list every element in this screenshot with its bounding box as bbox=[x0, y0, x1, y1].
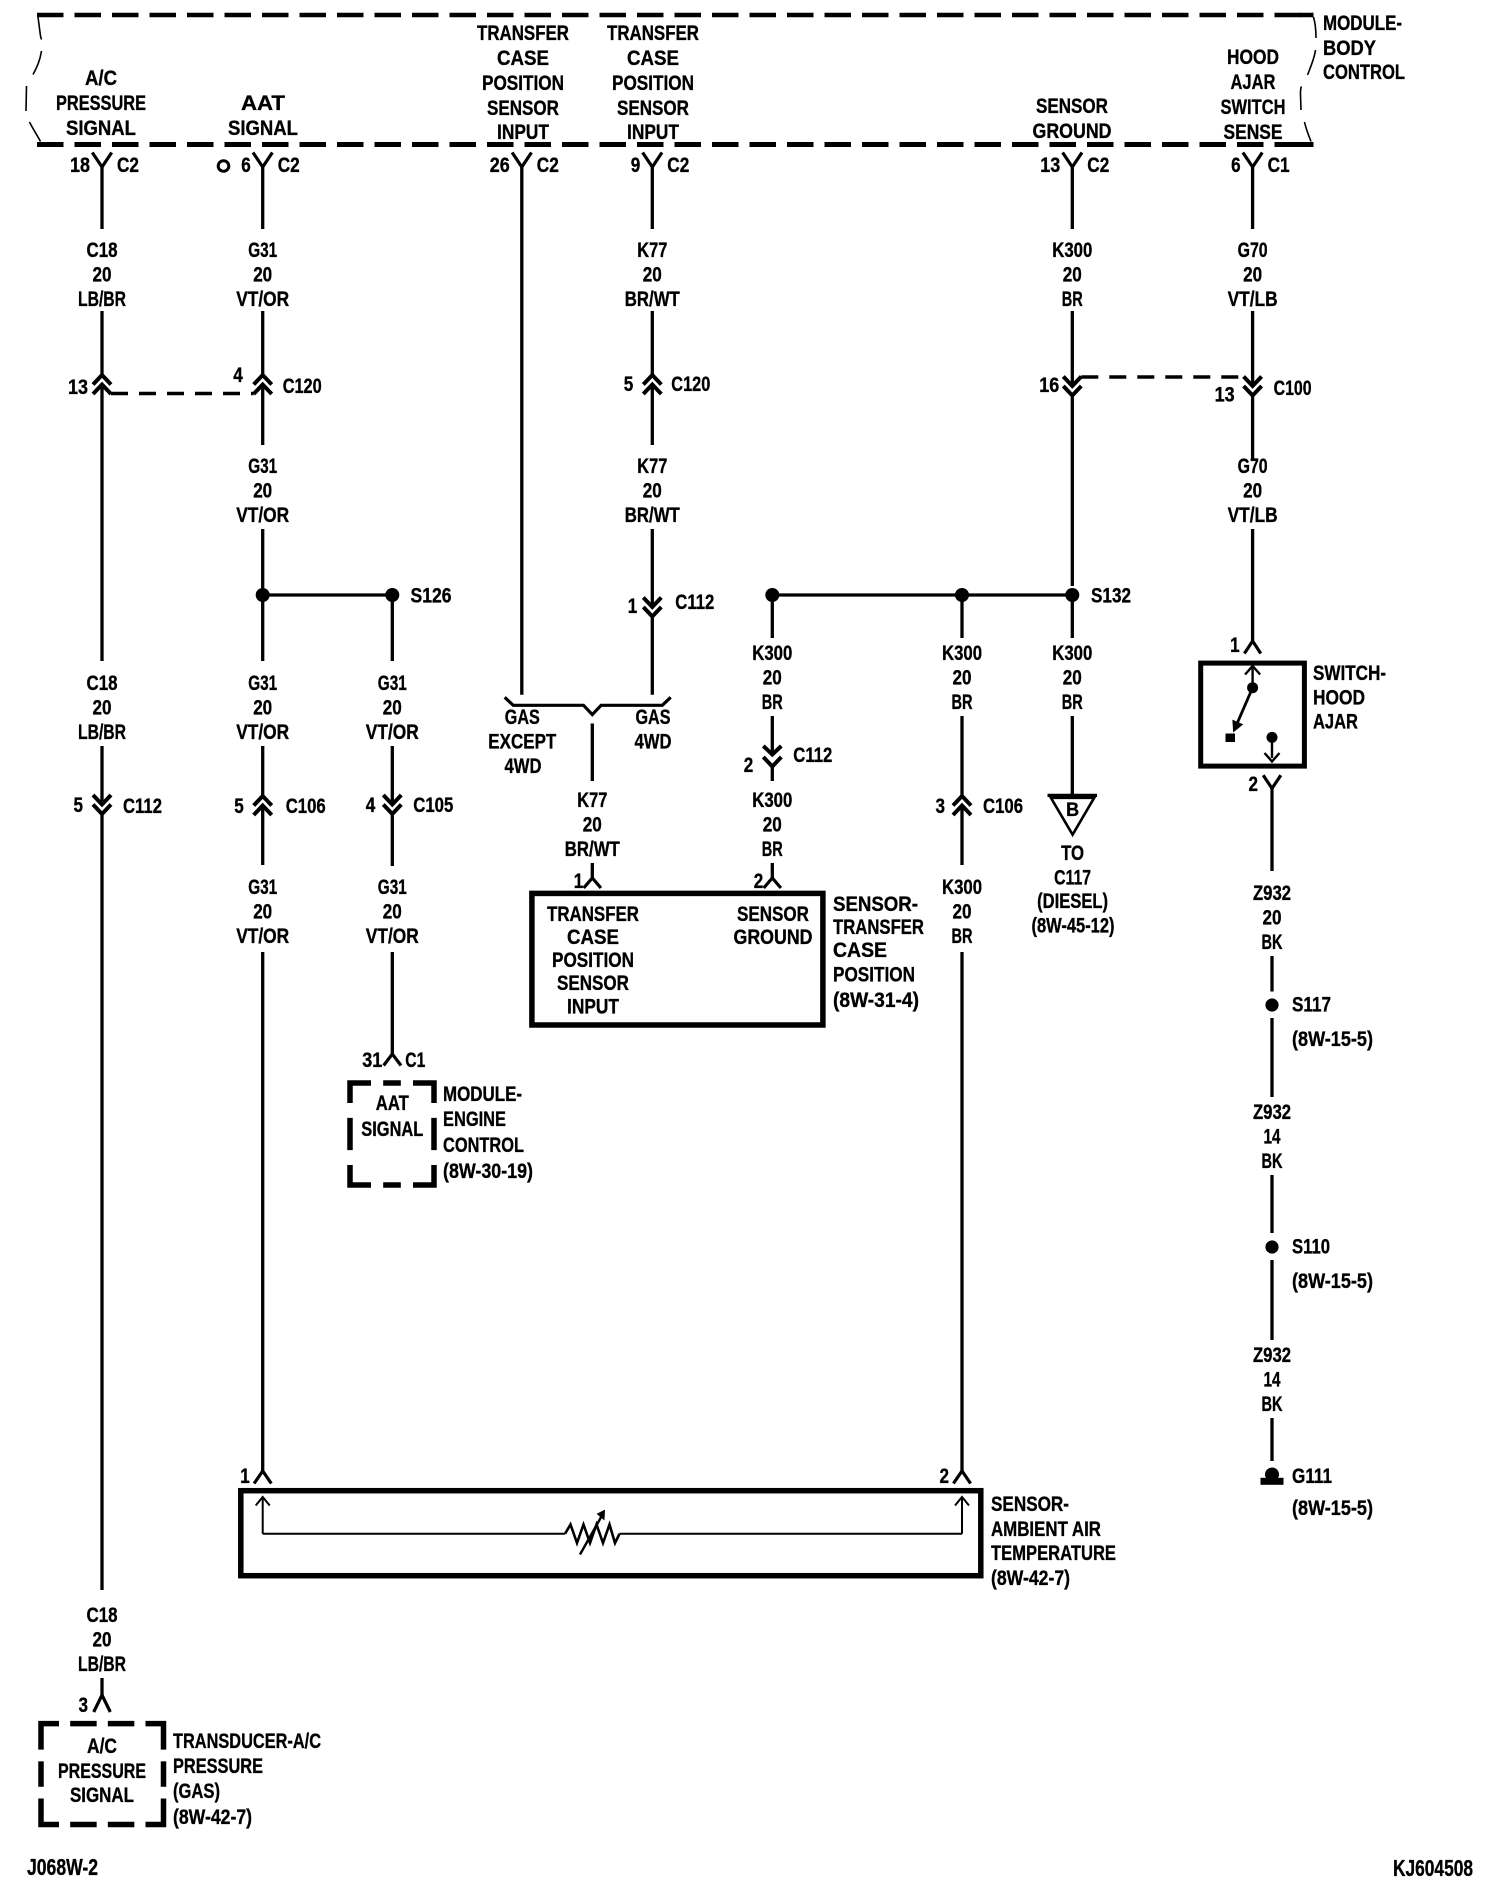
svg-text:VT/LB: VT/LB bbox=[1228, 503, 1278, 527]
splice S110 dot bbox=[1265, 1240, 1278, 1253]
wire G70 from pin 6 C1 bbox=[1251, 167, 1254, 229]
svg-text:20: 20 bbox=[953, 900, 972, 924]
svg-text:C2: C2 bbox=[1087, 153, 1109, 177]
splice S132 jumper wire bbox=[772, 593, 1072, 596]
svg-text:26: 26 bbox=[490, 153, 510, 177]
svg-text:PRESSURE: PRESSURE bbox=[56, 91, 146, 115]
svg-text:SENSOR: SENSOR bbox=[737, 902, 809, 926]
module-body-control right wavy edge bbox=[1300, 17, 1316, 142]
svg-text:A/C: A/C bbox=[87, 1734, 117, 1758]
pin 31 C1 into engine control module bbox=[384, 1054, 401, 1066]
svg-text:AJAR: AJAR bbox=[1231, 70, 1276, 94]
svg-text:(8W-30-19): (8W-30-19) bbox=[443, 1159, 533, 1183]
splice S117 dot bbox=[1265, 998, 1278, 1011]
svg-text:C1: C1 bbox=[405, 1048, 425, 1072]
svg-text:C106: C106 bbox=[983, 794, 1023, 818]
svg-text:20: 20 bbox=[253, 479, 272, 503]
svg-text:G31: G31 bbox=[248, 671, 277, 695]
module-body-control top dashed edge bbox=[37, 13, 1313, 18]
svg-text:BR: BR bbox=[762, 837, 783, 861]
pin 13 C2 (sensor ground) bbox=[1063, 153, 1082, 168]
AAT sensor internal lead pin2 with arrow bbox=[961, 1498, 963, 1534]
svg-text:SIGNAL: SIGNAL bbox=[66, 116, 136, 140]
merged wire bbox=[591, 724, 594, 782]
svg-text:B: B bbox=[1066, 800, 1079, 821]
svg-text:(8W-42-7): (8W-42-7) bbox=[173, 1805, 252, 1829]
wire below splice bbox=[1071, 595, 1074, 638]
svg-text:20: 20 bbox=[383, 696, 402, 720]
svg-text:20: 20 bbox=[93, 263, 112, 287]
svg-text:5: 5 bbox=[234, 794, 244, 818]
wire (long run to AAT sensor) bbox=[960, 952, 963, 1471]
svg-text:13: 13 bbox=[1215, 383, 1235, 407]
GAS / GAS EXCEPT 4WD merge brace bbox=[505, 697, 671, 714]
svg-text:4: 4 bbox=[366, 793, 376, 817]
svg-text:C2: C2 bbox=[117, 153, 139, 177]
wire bbox=[651, 617, 654, 695]
wire bbox=[261, 746, 264, 796]
svg-text:20: 20 bbox=[93, 1628, 112, 1652]
svg-text:C112: C112 bbox=[793, 743, 832, 767]
switch movable blade with arrowhead bbox=[1238, 688, 1253, 723]
svg-text:VT/LB: VT/LB bbox=[1228, 287, 1278, 311]
switch blade tip contact square bbox=[1226, 734, 1236, 743]
svg-text:LB/BR: LB/BR bbox=[78, 720, 126, 744]
ground G111 symbol bbox=[1265, 1468, 1279, 1482]
svg-text:20: 20 bbox=[1063, 666, 1082, 690]
svg-text:C2: C2 bbox=[667, 153, 689, 177]
wire K300 below S132 middle dot bbox=[960, 595, 963, 638]
svg-text:BR: BR bbox=[1062, 287, 1083, 311]
svg-text:20: 20 bbox=[93, 696, 112, 720]
AAT sensor internal lead pin1 with arrow bbox=[262, 1498, 264, 1534]
svg-text:13: 13 bbox=[68, 375, 88, 399]
connector C120 pin 4 bbox=[254, 375, 272, 385]
wire bbox=[1270, 1260, 1273, 1340]
svg-text:5: 5 bbox=[624, 372, 634, 396]
splice S132 dot left bbox=[765, 588, 779, 602]
svg-text:2: 2 bbox=[744, 753, 754, 777]
svg-text:LB/BR: LB/BR bbox=[78, 287, 126, 311]
wire G31 from pin 6 bbox=[261, 167, 264, 229]
svg-text:(8W-15-5): (8W-15-5) bbox=[1292, 1269, 1373, 1293]
wire bbox=[1270, 956, 1273, 992]
wire G31 below S126 bbox=[391, 595, 394, 661]
svg-text:(8W-42-7): (8W-42-7) bbox=[991, 1566, 1070, 1590]
svg-text:VT/OR: VT/OR bbox=[236, 720, 289, 744]
wire K300 from pin 13 bbox=[1071, 167, 1074, 229]
svg-text:POSITION: POSITION bbox=[833, 963, 915, 987]
svg-text:SIGNAL: SIGNAL bbox=[70, 1783, 134, 1807]
svg-text:S126: S126 bbox=[411, 584, 452, 608]
thermistor variable arrow bbox=[580, 1516, 602, 1555]
connector C112 pin 5 bbox=[93, 795, 111, 805]
svg-text:C18: C18 bbox=[87, 1603, 118, 1627]
module-body-control left wavy edge bbox=[26, 17, 42, 142]
dashed rung to C120 bbox=[111, 392, 254, 395]
svg-text:CASE: CASE bbox=[833, 938, 887, 962]
svg-text:C105: C105 bbox=[413, 793, 453, 817]
svg-text:CONTROL: CONTROL bbox=[1323, 60, 1405, 84]
svg-text:SWITCH: SWITCH bbox=[1221, 95, 1286, 119]
svg-text:C18: C18 bbox=[87, 238, 118, 262]
switch common contact dot bbox=[1247, 682, 1258, 693]
svg-text:K300: K300 bbox=[752, 641, 792, 665]
connector C105 pin 4 bbox=[383, 795, 401, 805]
svg-text:CASE: CASE bbox=[627, 46, 679, 70]
wire bbox=[960, 806, 963, 866]
switch fixed contact lead with arrowhead to box edge bbox=[1271, 737, 1273, 758]
connector C112 pin 1 bbox=[643, 598, 661, 608]
svg-text:GROUND: GROUND bbox=[1033, 119, 1112, 143]
splice S132 dot right bbox=[1065, 588, 1079, 602]
svg-text:GAS: GAS bbox=[636, 705, 671, 729]
svg-text:20: 20 bbox=[1063, 263, 1082, 287]
svg-text:LB/BR: LB/BR bbox=[78, 1652, 126, 1676]
svg-text:G70: G70 bbox=[1238, 238, 1268, 262]
pin 2 into TC position sensor bbox=[764, 878, 781, 888]
wire bbox=[100, 385, 103, 662]
connector C100 pin 13 bbox=[1244, 377, 1262, 387]
svg-text:3: 3 bbox=[79, 1693, 89, 1717]
svg-text:K300: K300 bbox=[942, 875, 982, 899]
svg-text:G111: G111 bbox=[1292, 1464, 1332, 1488]
pin 1 into TC position sensor bbox=[584, 878, 601, 888]
svg-text:EXCEPT: EXCEPT bbox=[488, 730, 556, 754]
wire bbox=[391, 746, 394, 805]
svg-text:S117: S117 bbox=[1292, 993, 1331, 1017]
wire bbox=[1270, 1175, 1273, 1233]
svg-text:TRANSFER: TRANSFER bbox=[833, 915, 924, 939]
wire bbox=[261, 806, 264, 866]
connector C120 pin 5 bbox=[643, 375, 661, 385]
svg-text:GAS: GAS bbox=[505, 705, 540, 729]
svg-text:(DIESEL): (DIESEL) bbox=[1037, 889, 1108, 913]
svg-text:POSITION: POSITION bbox=[552, 948, 634, 972]
svg-text:6: 6 bbox=[1231, 153, 1241, 177]
wire bbox=[771, 716, 774, 755]
splice S126 dot right bbox=[385, 588, 399, 602]
svg-text:C2: C2 bbox=[278, 153, 300, 177]
svg-text:K77: K77 bbox=[577, 788, 607, 812]
svg-text:INPUT: INPUT bbox=[567, 995, 619, 1019]
pin 6 C2 (AAT signal) with circle marker bbox=[218, 161, 229, 172]
wire through splice bbox=[261, 529, 264, 661]
svg-text:G31: G31 bbox=[248, 238, 277, 262]
svg-text:16: 16 bbox=[1039, 373, 1059, 397]
wire bbox=[1270, 1018, 1273, 1097]
svg-text:20: 20 bbox=[643, 263, 662, 287]
svg-text:20: 20 bbox=[383, 900, 402, 924]
connector C112? col1 chevrons pin 13 (C120 row) bbox=[93, 375, 111, 385]
svg-text:K300: K300 bbox=[1052, 641, 1092, 665]
wire bbox=[1071, 396, 1074, 587]
module-body-control bottom edge final dash bbox=[1300, 142, 1314, 147]
wire bbox=[1270, 1418, 1273, 1461]
svg-text:Z932: Z932 bbox=[1253, 1343, 1291, 1367]
svg-text:20: 20 bbox=[583, 813, 602, 837]
module-body-control bottom dashed edge bbox=[37, 142, 1313, 147]
svg-text:INPUT: INPUT bbox=[627, 120, 679, 144]
svg-text:BODY: BODY bbox=[1323, 36, 1376, 60]
pin 1 into AAT sensor bbox=[254, 1471, 271, 1484]
svg-text:C18: C18 bbox=[87, 671, 118, 695]
svg-text:(8W-15-5): (8W-15-5) bbox=[1292, 1496, 1373, 1520]
connector C106 pin 5 bbox=[254, 796, 272, 806]
svg-text:VT/OR: VT/OR bbox=[236, 287, 289, 311]
svg-text:BR: BR bbox=[762, 690, 783, 714]
svg-text:K300: K300 bbox=[942, 641, 982, 665]
svg-text:C117: C117 bbox=[1054, 866, 1091, 890]
wire bbox=[261, 311, 264, 375]
svg-text:K300: K300 bbox=[1052, 238, 1092, 262]
svg-text:BK: BK bbox=[1262, 930, 1283, 954]
svg-text:G31: G31 bbox=[378, 875, 407, 899]
wire bbox=[771, 863, 774, 878]
svg-text:1: 1 bbox=[628, 594, 638, 618]
switch common contact arrow (pin 1 side) bbox=[1251, 668, 1253, 688]
svg-text:4: 4 bbox=[233, 363, 243, 387]
svg-text:2: 2 bbox=[1249, 772, 1259, 796]
wire to diesel reference triangle bbox=[1071, 716, 1074, 795]
wire bbox=[651, 529, 654, 607]
svg-text:(8W-31-4): (8W-31-4) bbox=[833, 988, 919, 1012]
svg-text:S132: S132 bbox=[1091, 584, 1131, 608]
wire bbox=[591, 863, 594, 878]
svg-text:VT/OR: VT/OR bbox=[366, 924, 419, 948]
svg-text:TRANSFER: TRANSFER bbox=[547, 902, 639, 926]
svg-text:SENSOR: SENSOR bbox=[557, 971, 629, 995]
svg-text:AAT: AAT bbox=[241, 91, 285, 115]
svg-text:BR/WT: BR/WT bbox=[565, 837, 620, 861]
svg-text:CONTROL: CONTROL bbox=[443, 1133, 524, 1157]
pin 1 into switch bbox=[1244, 641, 1260, 654]
svg-text:SIGNAL: SIGNAL bbox=[361, 1117, 423, 1141]
svg-text:J068W-2: J068W-2 bbox=[27, 1854, 98, 1880]
svg-text:18: 18 bbox=[70, 153, 90, 177]
svg-text:ENGINE: ENGINE bbox=[443, 1107, 506, 1131]
svg-text:SENSOR: SENSOR bbox=[617, 96, 689, 120]
sensor-ambient air temperature box bbox=[241, 1491, 981, 1576]
svg-text:AMBIENT AIR: AMBIENT AIR bbox=[991, 1517, 1101, 1541]
svg-text:3: 3 bbox=[936, 794, 946, 818]
svg-text:C100: C100 bbox=[1274, 376, 1312, 400]
wire bbox=[1251, 396, 1254, 461]
svg-text:TRANSFER: TRANSFER bbox=[477, 21, 569, 45]
connector C106 pin 3 bbox=[953, 796, 971, 806]
svg-text:(8W-45-12): (8W-45-12) bbox=[1032, 914, 1115, 938]
svg-text:BK: BK bbox=[1262, 1149, 1283, 1173]
wire bbox=[960, 716, 963, 796]
svg-text:20: 20 bbox=[1243, 479, 1262, 503]
svg-text:4WD: 4WD bbox=[505, 754, 542, 778]
svg-text:G31: G31 bbox=[248, 875, 277, 899]
module-body-control top edge final dash bbox=[1300, 13, 1314, 18]
connector C112 pin 2 (male/female) bbox=[763, 746, 781, 755]
pin 3 into transducer bbox=[94, 1695, 111, 1712]
pin 9 C2 (transfer case position sensor input) bbox=[643, 153, 662, 168]
wire (long run to transducer) bbox=[100, 814, 103, 1590]
thermistor zigzag element bbox=[565, 1525, 620, 1544]
svg-text:POSITION: POSITION bbox=[612, 71, 694, 95]
svg-text:BR: BR bbox=[952, 924, 973, 948]
svg-text:BK: BK bbox=[1262, 1392, 1283, 1416]
svg-text:20: 20 bbox=[253, 900, 272, 924]
svg-text:BR/WT: BR/WT bbox=[625, 287, 680, 311]
svg-text:MODULE-: MODULE- bbox=[1323, 11, 1402, 35]
svg-text:C1: C1 bbox=[1268, 153, 1290, 177]
svg-text:INPUT: INPUT bbox=[497, 120, 549, 144]
svg-text:20: 20 bbox=[253, 263, 272, 287]
svg-text:C120: C120 bbox=[283, 374, 322, 398]
svg-text:SENSE: SENSE bbox=[1224, 120, 1283, 144]
svg-text:(8W-15-5): (8W-15-5) bbox=[1292, 1027, 1373, 1051]
svg-text:Z932: Z932 bbox=[1253, 1100, 1291, 1124]
svg-text:CASE: CASE bbox=[497, 46, 549, 70]
svg-text:K77: K77 bbox=[637, 238, 667, 262]
svg-text:BR: BR bbox=[952, 690, 973, 714]
wire bbox=[391, 814, 394, 866]
transducer-A/C pressure dashed box bbox=[41, 1724, 59, 1750]
wire bbox=[261, 385, 264, 446]
wire C18 from pin 18 bbox=[100, 167, 103, 229]
off-page reference triangle B (to C117 diesel) bbox=[1048, 794, 1098, 797]
svg-text:C112: C112 bbox=[675, 590, 714, 614]
svg-text:20: 20 bbox=[953, 666, 972, 690]
svg-text:20: 20 bbox=[1243, 263, 1262, 287]
pin 2 into AAT sensor bbox=[953, 1471, 970, 1484]
svg-text:K77: K77 bbox=[637, 454, 667, 478]
module-engine control dashed box bbox=[350, 1083, 371, 1103]
splice S132 dot middle bbox=[955, 588, 969, 602]
svg-text:4WD: 4WD bbox=[635, 730, 672, 754]
svg-text:(GAS): (GAS) bbox=[173, 1779, 220, 1803]
svg-text:20: 20 bbox=[253, 696, 272, 720]
AAT sensor internal wire bbox=[263, 1533, 565, 1535]
svg-text:9: 9 bbox=[631, 153, 641, 177]
svg-text:SENSOR-: SENSOR- bbox=[833, 892, 918, 916]
svg-text:TEMPERATURE: TEMPERATURE bbox=[991, 1541, 1116, 1565]
svg-text:5: 5 bbox=[74, 793, 84, 817]
connector C100 pin 16 bbox=[1063, 377, 1081, 387]
svg-text:SENSOR: SENSOR bbox=[487, 96, 559, 120]
wire bbox=[100, 746, 103, 805]
svg-text:13: 13 bbox=[1040, 153, 1060, 177]
pin 18 C2 (A/C pressure signal) bbox=[92, 153, 111, 168]
wire bbox=[391, 952, 394, 1054]
svg-text:HOOD: HOOD bbox=[1313, 686, 1365, 710]
svg-text:BR/WT: BR/WT bbox=[625, 503, 680, 527]
svg-text:MODULE-: MODULE- bbox=[443, 1082, 522, 1106]
svg-text:6: 6 bbox=[241, 153, 251, 177]
svg-text:1: 1 bbox=[574, 869, 584, 893]
svg-text:KJ604508: KJ604508 bbox=[1393, 1855, 1473, 1881]
svg-text:AJAR: AJAR bbox=[1313, 710, 1358, 734]
svg-text:C120: C120 bbox=[671, 372, 710, 396]
svg-text:G70: G70 bbox=[1238, 454, 1268, 478]
svg-text:C112: C112 bbox=[123, 794, 162, 818]
wire K300 below S132 bbox=[771, 595, 774, 638]
svg-text:SIGNAL: SIGNAL bbox=[228, 116, 298, 140]
svg-text:HOOD: HOOD bbox=[1227, 45, 1279, 69]
svg-text:PRESSURE: PRESSURE bbox=[173, 1754, 263, 1778]
wire bbox=[651, 311, 654, 375]
svg-text:GROUND: GROUND bbox=[734, 925, 813, 949]
svg-text:K300: K300 bbox=[752, 788, 792, 812]
pin 6 C1 (hood ajar switch sense) bbox=[1243, 153, 1262, 168]
svg-text:A/C: A/C bbox=[85, 66, 117, 90]
svg-text:S110: S110 bbox=[1292, 1235, 1330, 1259]
svg-text:20: 20 bbox=[763, 813, 782, 837]
wire bbox=[100, 311, 103, 375]
wire bbox=[100, 1678, 103, 1696]
wire bbox=[651, 385, 654, 446]
pin 2 fork below switch bbox=[1263, 775, 1281, 788]
svg-text:C106: C106 bbox=[286, 794, 326, 818]
svg-text:20: 20 bbox=[763, 666, 782, 690]
svg-text:SWITCH-: SWITCH- bbox=[1313, 661, 1386, 685]
svg-text:SENSOR-: SENSOR- bbox=[991, 1492, 1069, 1516]
switch-hood ajar box bbox=[1201, 663, 1305, 766]
svg-text:VT/OR: VT/OR bbox=[236, 503, 289, 527]
pin 26 C2 (transfer case position sensor input) bbox=[512, 153, 531, 168]
svg-text:POSITION: POSITION bbox=[482, 71, 564, 95]
splice S126 dot left bbox=[256, 588, 270, 602]
wire from pin 26 to GAS brace bbox=[520, 167, 523, 695]
svg-text:PRESSURE: PRESSURE bbox=[58, 1759, 146, 1783]
svg-text:G31: G31 bbox=[248, 454, 277, 478]
dashed rung to C100 bbox=[1081, 375, 1243, 378]
svg-text:20: 20 bbox=[643, 479, 662, 503]
svg-text:2: 2 bbox=[754, 869, 764, 893]
sensor-transfer case position box bbox=[532, 893, 823, 1025]
wire (long run to AAT sensor) bbox=[261, 952, 264, 1471]
svg-text:CASE: CASE bbox=[567, 925, 619, 949]
svg-text:TO: TO bbox=[1061, 841, 1084, 865]
svg-text:G31: G31 bbox=[378, 671, 407, 695]
svg-text:1: 1 bbox=[1230, 633, 1240, 657]
svg-text:TRANSDUCER-A/C: TRANSDUCER-A/C bbox=[173, 1729, 321, 1753]
wire bbox=[1251, 311, 1254, 386]
svg-text:2: 2 bbox=[940, 1464, 950, 1488]
wire K77 from pin 9 bbox=[651, 167, 654, 229]
svg-text:C2: C2 bbox=[537, 153, 559, 177]
svg-text:VT/OR: VT/OR bbox=[366, 720, 419, 744]
wire Z932 bbox=[1270, 800, 1273, 871]
svg-text:Z932: Z932 bbox=[1253, 881, 1291, 905]
svg-text:20: 20 bbox=[1263, 906, 1282, 930]
svg-text:AAT: AAT bbox=[376, 1091, 409, 1115]
wire to hood ajar switch bbox=[1251, 529, 1254, 641]
svg-text:SENSOR: SENSOR bbox=[1036, 94, 1108, 118]
svg-text:BR: BR bbox=[1062, 690, 1083, 714]
svg-text:TRANSFER: TRANSFER bbox=[607, 21, 699, 45]
svg-text:31: 31 bbox=[362, 1048, 382, 1072]
svg-text:1: 1 bbox=[240, 1464, 250, 1488]
svg-text:VT/OR: VT/OR bbox=[236, 924, 289, 948]
svg-text:14: 14 bbox=[1264, 1125, 1281, 1149]
wire bbox=[1071, 311, 1074, 386]
switch fixed contact dot (pin 2 side) bbox=[1267, 732, 1278, 743]
splice S126 jumper wire bbox=[263, 593, 393, 596]
svg-text:14: 14 bbox=[1264, 1368, 1281, 1392]
